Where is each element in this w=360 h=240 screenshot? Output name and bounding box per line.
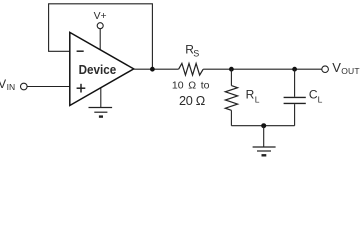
wire bottom rail RL to CL [231,125,294,127]
svg-text:OUT: OUT [341,66,360,76]
wire junction down to CL top plate [294,69,296,97]
wire VIN to non-inverting input [27,86,70,88]
svg-text:V+: V+ [94,11,107,22]
capacitor CL [284,96,306,98]
node V+ supply terminal [97,23,103,29]
svg-text:L: L [255,94,260,104]
pin inverting input minus [77,50,84,52]
node VIN terminal [21,83,28,90]
wire ground stem of op-amp [100,86,102,108]
svg-text:V: V [332,60,341,75]
svg-text:R: R [246,87,255,101]
ground under op-amp [89,108,113,117]
wire ground stem [263,126,265,147]
wire RS to VOUT terminal [203,68,322,70]
wire feedback loop from output node to inverting input [49,4,153,69]
node RL junction dot [229,67,234,72]
wire RL bottom [230,110,232,125]
ground bottom [253,147,276,155]
svg-text:S: S [193,49,199,59]
wire junction down to RL [230,69,232,85]
svg-text:IN: IN [7,82,16,92]
resistor RS [179,63,204,75]
node ground junction dot [261,123,266,128]
pin non-inverting input plus [77,87,86,89]
svg-text:V: V [0,77,6,91]
op-amp U1 Device [70,32,134,105]
node output junction dot [150,67,155,72]
node VOUT terminal [322,66,329,73]
wire op-amp output to RS [134,68,179,70]
svg-text:20 Ω: 20 Ω [179,94,205,108]
wire CL bottom [294,104,296,126]
svg-text:Device: Device [79,62,117,77]
resistor RL [225,86,237,111]
node CL junction dot [292,67,297,72]
svg-text:C: C [309,87,318,101]
wire V+ stem to op-amp top [99,29,101,52]
svg-text:L: L [318,94,323,104]
svg-text:10 Ω to: 10 Ω to [172,80,210,92]
